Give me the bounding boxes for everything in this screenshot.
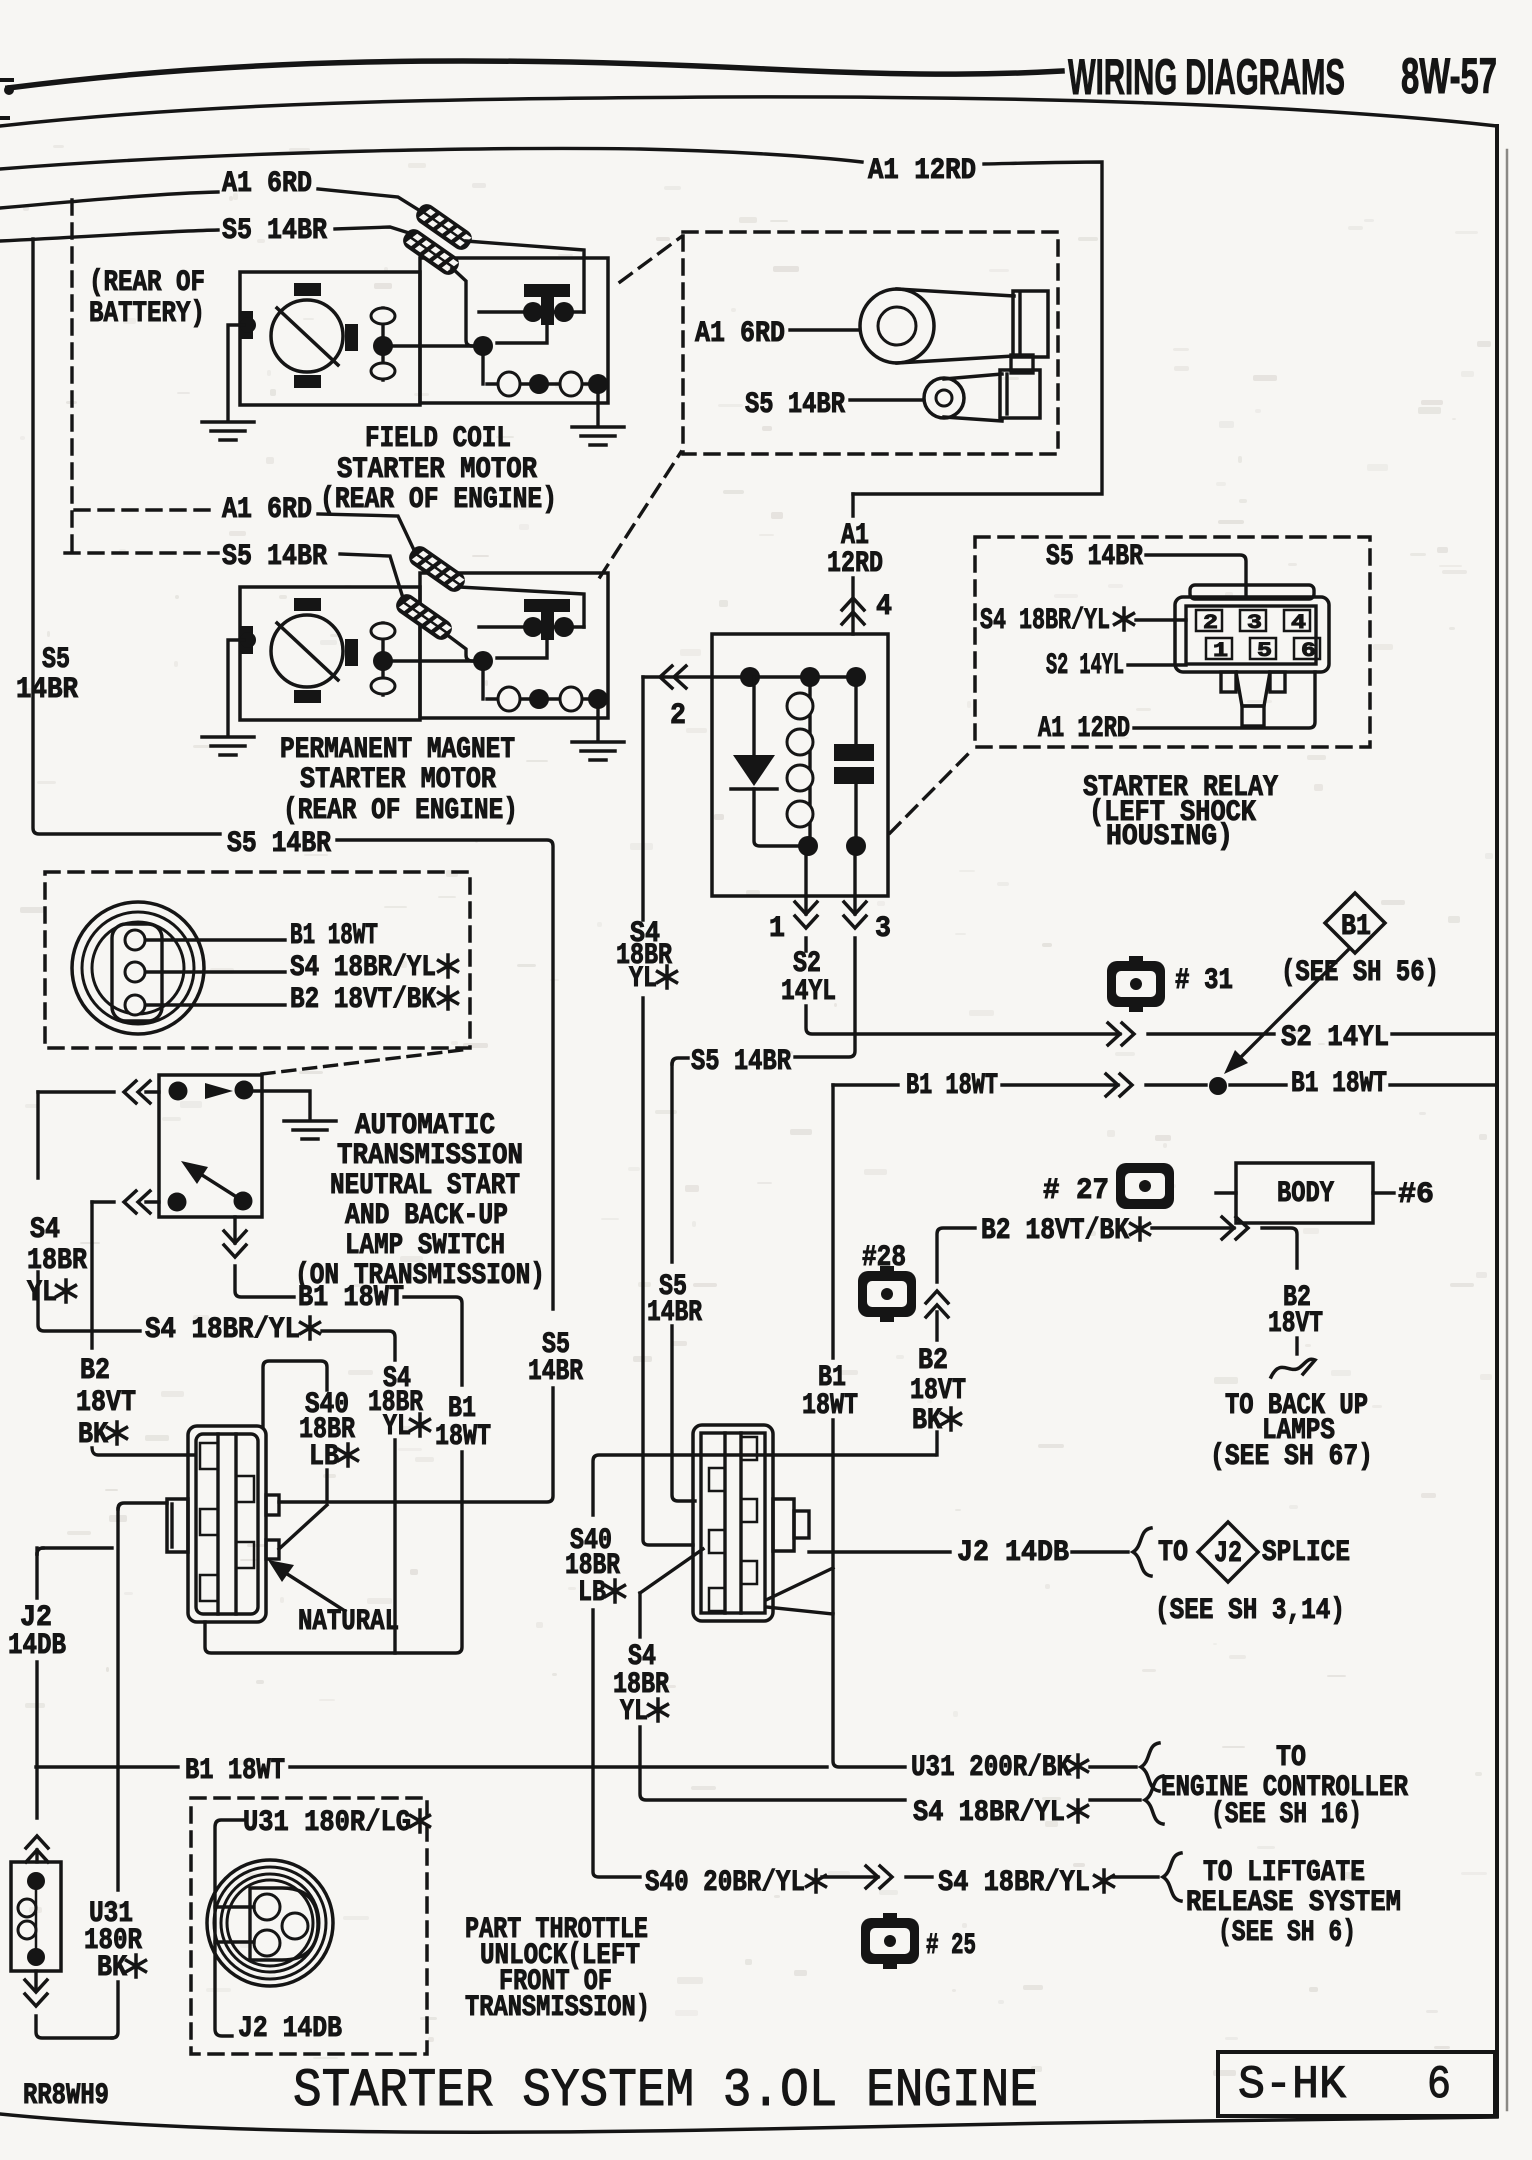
wire S2 14YL	[806, 1006, 1120, 1034]
wire S5 14BR (left side run)	[33, 239, 220, 834]
splice #31 symbol	[1129, 956, 1143, 964]
wire S5 14BR leader	[0, 230, 218, 241]
brace symbol (liftgate)	[1163, 1853, 1181, 1901]
svg-text:STARTER SYSTEM 3.OL ENGINE: STARTER SYSTEM 3.OL ENGINE	[293, 2061, 1038, 2122]
wire S5 14BR to M2 bullet connector	[340, 554, 403, 598]
svg-text:NATURAL: NATURAL	[298, 1605, 399, 1639]
wire to U31 riser	[36, 2016, 112, 2038]
dashed boundary (rear of battery)	[70, 200, 73, 553]
wire S5 14BR down	[670, 1064, 673, 1262]
wire A1 6RD leader	[0, 192, 218, 208]
svg-text:A1 12RD: A1 12RD	[1038, 712, 1130, 746]
ring terminal A1 6RD	[897, 289, 1014, 363]
inline connector symbol (S4 at switch)	[124, 1081, 150, 1103]
svg-text:B1 18WT: B1 18WT	[906, 1069, 998, 1103]
svg-text:S2 14YL: S2 14YL	[1046, 649, 1124, 683]
svg-text:(SEE SH 16): (SEE SH 16)	[1211, 1798, 1362, 1832]
svg-text:18VT: 18VT	[1268, 1307, 1323, 1341]
wire B1 18WT (horizontal)	[833, 1083, 898, 1086]
detail box: part throttle unlock connector	[191, 1798, 427, 2054]
svg-text:18VT: 18VT	[910, 1374, 966, 1408]
svg-text:BATTERY): BATTERY)	[89, 297, 205, 331]
wire S4 18BR/YL to engine controller	[640, 1727, 905, 1800]
wire B2 stub	[1295, 1338, 1298, 1354]
svg-text:S5 14BR: S5 14BR	[227, 827, 331, 861]
wire B1 18WT to page edge	[1390, 1083, 1497, 1086]
dashed leader M2 to terminal detail	[600, 452, 681, 577]
svg-text:TRANSMISSION: TRANSMISSION	[337, 1139, 523, 1173]
wire S4 down to B1 run	[393, 1440, 396, 1653]
leader S4 to pin 2	[1136, 618, 1186, 621]
svg-text:J2 14DB: J2 14DB	[957, 1536, 1069, 1570]
inline connector symbol (J2)	[26, 1836, 48, 1862]
wire A1 6RD to M2 bullet connector	[318, 514, 414, 550]
bullet connector (S5, M2)	[393, 591, 456, 644]
svg-text:(REAR OF ENGINE): (REAR OF ENGINE)	[320, 483, 557, 517]
svg-text:S5 14BR: S5 14BR	[1046, 540, 1143, 574]
wire S4 to label	[38, 1272, 140, 1331]
wire U31 180R/BK (riser)	[116, 1509, 119, 1890]
wire J2 to fusible link	[35, 1662, 38, 1818]
wire S4 (liftgate)	[906, 1875, 932, 1878]
svg-text:4: 4	[876, 590, 892, 624]
arrow to connector C1	[268, 1560, 294, 1582]
wire A1 12RD into relay	[851, 494, 854, 634]
svg-text:RELEASE SYSTEM: RELEASE SYSTEM	[1186, 1886, 1401, 1920]
starter motor M1 (field coil): housing, armature, solenoid, grounds	[202, 258, 624, 445]
neutral start / back-up lamp switch S1 (box)	[159, 1075, 262, 1217]
svg-text:S5 14BR: S5 14BR	[222, 540, 327, 574]
svg-text:J2 14DB: J2 14DB	[238, 2012, 342, 2046]
svg-text:TO: TO	[1158, 1536, 1188, 1570]
wire A1 6RD to M1 bullet connector	[318, 189, 422, 212]
svg-text:B1 18WT: B1 18WT	[185, 1754, 285, 1788]
svg-text:5: 5	[1257, 640, 1272, 663]
wire A1 into M2 solenoid	[459, 587, 584, 627]
starter relay K1 (box)	[712, 634, 888, 896]
svg-text:SPLICE: SPLICE	[1262, 1536, 1350, 1570]
svg-text:4: 4	[1291, 612, 1306, 635]
wire S4 to brace (liftgate)	[1112, 1875, 1158, 1878]
wire S40 20BR/YL to liftgate row	[593, 1610, 640, 1877]
inline connector symbol (S40/S4)	[866, 1866, 892, 1888]
svg-text:14BR: 14BR	[647, 1296, 702, 1330]
fusible link F1 (box)	[11, 1862, 61, 1971]
svg-text:B1 18WT: B1 18WT	[298, 1281, 404, 1315]
svg-text:# 31: # 31	[1175, 964, 1233, 998]
svg-text:S4 18BR/YL: S4 18BR/YL	[938, 1866, 1090, 1900]
capacitor C1 (relay)	[854, 687, 857, 836]
brace symbol (S4)	[1145, 1776, 1163, 1824]
diode CR1 (relay clamp)	[733, 755, 775, 786]
svg-text:PERMANENT MAGNET: PERMANENT MAGNET	[280, 733, 515, 767]
svg-text:1: 1	[1213, 640, 1228, 663]
svg-text:12RD: 12RD	[827, 547, 883, 581]
svg-text:S4 18BR/YL: S4 18BR/YL	[290, 951, 436, 985]
wire S4 18BR/YL from relay pin 2	[641, 677, 644, 920]
svg-text:STARTER MOTOR: STARTER MOTOR	[337, 453, 537, 487]
wire S4 18BR/YL (left)	[36, 1092, 39, 1178]
brace symbol (J2)	[1133, 1528, 1151, 1576]
wire B1 to chevron	[1002, 1083, 1118, 1086]
junction dots (relay bottom)	[798, 836, 818, 856]
svg-text:YL: YL	[629, 962, 657, 996]
inline connector symbol (U31 side)	[25, 1980, 47, 2006]
svg-text:18BR: 18BR	[27, 1244, 87, 1278]
switch upper contact arrow	[205, 1083, 233, 1099]
wire B1	[1230, 1083, 1286, 1086]
wire B2 18VT/BK (riser)	[935, 1432, 938, 1455]
svg-text:18WT: 18WT	[802, 1389, 858, 1423]
junction node B1	[1209, 1077, 1227, 1095]
svg-text:BK: BK	[912, 1404, 942, 1438]
svg-text:S4 18BR/YL: S4 18BR/YL	[913, 1796, 1065, 1830]
wire S5 14BR to M1 bullet connector	[335, 227, 409, 233]
ring terminal S5 14BR	[944, 374, 1002, 421]
wire S5 14BR corner	[672, 1058, 688, 1064]
svg-text:BK: BK	[97, 1951, 127, 1985]
svg-text:14YL: 14YL	[781, 975, 836, 1009]
svg-text:RR8WH9: RR8WH9	[23, 2079, 109, 2113]
leader A1 to pin 6	[1134, 672, 1315, 728]
reference arrow to B1 junction	[1240, 950, 1348, 1058]
svg-text:WIRING DIAGRAMS: WIRING DIAGRAMS	[1068, 49, 1345, 105]
off-page reference B1 (diamond)	[1325, 893, 1385, 953]
svg-text:14BR: 14BR	[528, 1355, 583, 1389]
inline connector symbol 1	[795, 902, 817, 928]
svg-text:LB: LB	[578, 1576, 606, 1610]
wire S5 14BR to S40 node	[672, 1326, 695, 1501]
svg-text:(SEE SH 56): (SEE SH 56)	[1281, 956, 1439, 990]
inline connector symbol (B1)	[1106, 1074, 1132, 1096]
inline connector symbol (B2 at switch)	[124, 1191, 150, 1213]
leader to A1 ring terminal	[790, 328, 858, 331]
inline connector symbol 3	[844, 902, 866, 928]
bullet connector (A1, M1)	[413, 201, 476, 254]
dashed leader relay to connector detail	[890, 750, 972, 833]
svg-text:S5: S5	[42, 643, 70, 677]
BODY box	[1236, 1163, 1373, 1223]
wire S2 14YL to page edge	[1392, 1032, 1497, 1035]
wire S5 14BR to relay pin 3	[337, 840, 553, 1309]
round connector face (3-way)	[72, 902, 204, 1034]
connector C1 (NATURAL, 60-way)	[188, 1426, 266, 1622]
splice #28 symbol	[880, 1266, 894, 1274]
relay pin 1 wire	[804, 856, 807, 951]
wire U31 to brace	[1090, 1765, 1136, 1768]
wire S40/B2 through connector C2	[593, 1455, 935, 1515]
wire S40 from connector C1	[263, 1361, 327, 1426]
svg-text:(REAR OF: (REAR OF	[89, 266, 205, 300]
svg-text:(REAR OF ENGINE): (REAR OF ENGINE)	[283, 794, 518, 828]
inline connector symbol (S2)	[1108, 1023, 1134, 1045]
svg-text:TO LIFTGATE: TO LIFTGATE	[1203, 1856, 1365, 1890]
svg-text:8W-57: 8W-57	[1401, 48, 1497, 104]
svg-text:2: 2	[1203, 612, 1218, 635]
junction dots (relay top)	[740, 667, 760, 687]
wire B1 18WT from switch	[235, 1217, 294, 1297]
splice reference J2 (diamond)	[1198, 1522, 1258, 1582]
ground (switch)	[284, 1121, 336, 1139]
connector C2 (center)	[693, 1425, 773, 1621]
splice #27 symbol	[1117, 1180, 1125, 1192]
dashed leader connector to switch	[262, 1049, 470, 1074]
leader S2 to pin 1	[1128, 663, 1186, 666]
svg-text:S5 14BR: S5 14BR	[222, 214, 327, 248]
bullet connector (S5, M1)	[400, 226, 463, 279]
inline connector symbol 2	[660, 666, 686, 688]
svg-text:2: 2	[670, 699, 686, 733]
svg-text:3: 3	[875, 912, 891, 946]
svg-text:3: 3	[1247, 612, 1262, 635]
svg-text:6: 6	[1301, 640, 1316, 663]
svg-text:14DB: 14DB	[8, 1629, 66, 1663]
svg-text:B2 18VT/BK: B2 18VT/BK	[290, 983, 436, 1017]
svg-text:S-HK: S-HK	[1238, 2059, 1346, 2111]
svg-text:B1 18WT: B1 18WT	[1291, 1067, 1387, 1101]
title block S-HK 6	[1218, 2052, 1495, 2116]
wire U31 into connector C1	[118, 1503, 167, 1509]
wire B2 down	[1262, 1228, 1297, 1268]
svg-text:B1 18WT: B1 18WT	[290, 919, 378, 953]
svg-text:B2 18VT/BK: B2 18VT/BK	[981, 1214, 1129, 1248]
svg-text:S2 14YL: S2 14YL	[1281, 1021, 1389, 1055]
svg-text:# 25: # 25	[926, 1929, 976, 1963]
wire B1	[1146, 1083, 1206, 1086]
svg-text:18VT: 18VT	[76, 1386, 136, 1420]
wire U31 bottom	[112, 1982, 118, 2038]
svg-text:AND BACK-UP: AND BACK-UP	[345, 1199, 508, 1233]
svg-text:S4 18BR/YL: S4 18BR/YL	[145, 1313, 300, 1347]
wire B2 to chevron	[1152, 1226, 1234, 1229]
inline connector symbol (B1 at switch)	[224, 1231, 246, 1257]
svg-text:S5 14BR: S5 14BR	[745, 388, 845, 422]
svg-text:#6: #6	[1398, 1178, 1434, 1212]
detail box: motor pigtail connector face	[45, 872, 470, 1048]
svg-text:YL: YL	[383, 1410, 411, 1444]
pin leaders (part throttle)	[215, 1907, 254, 1942]
wire J2 14DB from connector C2	[809, 1550, 950, 1553]
wire B2 up to body feed	[937, 1228, 975, 1340]
bullet connector (A1, M2)	[406, 543, 469, 596]
svg-text:B1: B1	[1341, 910, 1371, 944]
svg-text:S5 14BR: S5 14BR	[691, 1045, 791, 1079]
svg-text:YL: YL	[27, 1276, 57, 1310]
svg-text:(SEE SH 3,14): (SEE SH 3,14)	[1155, 1594, 1345, 1628]
wire S5 into M2 armature	[446, 634, 472, 661]
svg-text:HOUSING): HOUSING)	[1106, 820, 1233, 854]
leader S5 to pin 3	[1146, 555, 1246, 597]
wire S4 toward connector C1	[322, 1331, 395, 1360]
svg-text:TRANSMISSION): TRANSMISSION)	[465, 1991, 650, 2025]
svg-text:S40 20BR/YL: S40 20BR/YL	[645, 1866, 805, 1900]
splice #25 symbol	[883, 1913, 897, 1921]
wire S4 18BR/YL to connector C2	[643, 998, 693, 1545]
svg-text:YL: YL	[620, 1695, 648, 1729]
leader to S5 ring terminal	[850, 398, 923, 401]
round connector face (part throttle)	[207, 1860, 333, 1986]
svg-text:A1 12RD: A1 12RD	[868, 154, 976, 188]
svg-text:U31 180R/LG: U31 180R/LG	[243, 1806, 411, 1840]
svg-text:S4: S4	[30, 1213, 60, 1247]
wire B2 at switch	[146, 1200, 159, 1203]
svg-text:B2: B2	[918, 1344, 948, 1378]
connector mounting tabs	[1221, 672, 1236, 692]
dashed leader M1 to terminal detail	[620, 237, 681, 282]
svg-text:FIELD COIL: FIELD COIL	[365, 422, 511, 456]
switch lower contacts	[168, 1193, 187, 1212]
svg-text:NEUTRAL START: NEUTRAL START	[330, 1169, 520, 1203]
brace symbol (U31)	[1141, 1743, 1159, 1791]
wire J2 14DB (left)	[37, 1548, 112, 1598]
relay pin 3 wire	[795, 856, 855, 1057]
relay coil winding	[808, 687, 811, 836]
wire B1 18WT (bottom run)	[36, 1765, 178, 1768]
wire B1 18WT (bottom run, right)	[290, 1765, 827, 1768]
relay internal top wire	[643, 675, 846, 678]
starter motor M2 (permanent magnet): housing, armature, solenoid, grounds	[202, 573, 624, 760]
svg-text:6: 6	[1427, 2059, 1451, 2111]
wire S5 into M1 armature	[452, 268, 472, 346]
wire B2 into connector C1	[92, 1448, 193, 1455]
inline connector symbol (B2)	[926, 1291, 948, 1317]
pin leader bracket	[215, 1820, 243, 2036]
svg-text:STARTER MOTOR: STARTER MOTOR	[300, 763, 496, 797]
inline connector symbol 4	[842, 598, 864, 624]
pin leaders	[147, 940, 285, 1005]
wire S4 from connector C2 (diagonal)	[640, 1549, 703, 1593]
detail box: motor terminals	[683, 232, 1058, 454]
svg-text:18WT: 18WT	[435, 1420, 491, 1454]
svg-text:# 27: # 27	[1043, 1174, 1109, 1208]
wire B1 18WT (center drop)	[833, 1085, 905, 1767]
svg-text:TO: TO	[1276, 1741, 1306, 1775]
wire S4 drop	[638, 1593, 641, 1637]
svg-text:B2: B2	[80, 1354, 110, 1388]
switch movable contact arm	[191, 1168, 243, 1201]
svg-text:J2: J2	[1214, 1537, 1242, 1571]
svg-text:S4 18BR/YL: S4 18BR/YL	[980, 604, 1110, 638]
svg-text:BODY: BODY	[1277, 1177, 1334, 1211]
wires at BODY box	[1216, 1191, 1394, 1194]
wire J2 to splice	[1072, 1550, 1128, 1553]
wire S4 at switch	[146, 1090, 159, 1093]
inline connector symbol (B2 right)	[1222, 1217, 1248, 1239]
wire A1 12RD (battery feed, top)	[0, 148, 862, 169]
wire B1 18WT to connector C1 bottom	[205, 1297, 462, 1653]
wire S40 to S5 node	[325, 1470, 328, 1502]
svg-text:U31 200R/BK: U31 200R/BK	[911, 1751, 1071, 1785]
wire S40 to chevron	[822, 1875, 878, 1878]
svg-text:A1 6RD: A1 6RD	[222, 167, 312, 201]
switch upper contacts	[169, 1082, 188, 1101]
svg-text:14BR: 14BR	[16, 673, 78, 707]
svg-text:LAMP SWITCH: LAMP SWITCH	[345, 1229, 505, 1263]
starter relay connector (6-way) body	[1190, 585, 1314, 599]
detail box: starter relay connector	[975, 537, 1370, 747]
wire U31 200R/BK from connector C2	[766, 1568, 833, 1614]
svg-text:#28: #28	[862, 1241, 906, 1275]
svg-text:A1 6RD: A1 6RD	[222, 493, 312, 527]
wire from C1 lower tab	[279, 1505, 327, 1549]
svg-text:(SEE SH 67): (SEE SH 67)	[1210, 1440, 1373, 1474]
wire B2 18VT/BK (left)	[90, 1202, 93, 1348]
svg-text:(SEE SH 6): (SEE SH 6)	[1218, 1916, 1356, 1950]
svg-text:1: 1	[769, 912, 785, 946]
fusible link terminals and element	[27, 1872, 45, 1890]
svg-text:LB: LB	[309, 1440, 339, 1474]
svg-text:AUTOMATIC: AUTOMATIC	[355, 1109, 495, 1143]
wire S4 to brace	[1090, 1798, 1140, 1801]
svg-text:A1 6RD: A1 6RD	[695, 317, 785, 351]
wire A1 into M1 solenoid	[466, 241, 584, 312]
wire to switch ground	[253, 1091, 310, 1119]
break symbol	[1271, 1359, 1315, 1377]
